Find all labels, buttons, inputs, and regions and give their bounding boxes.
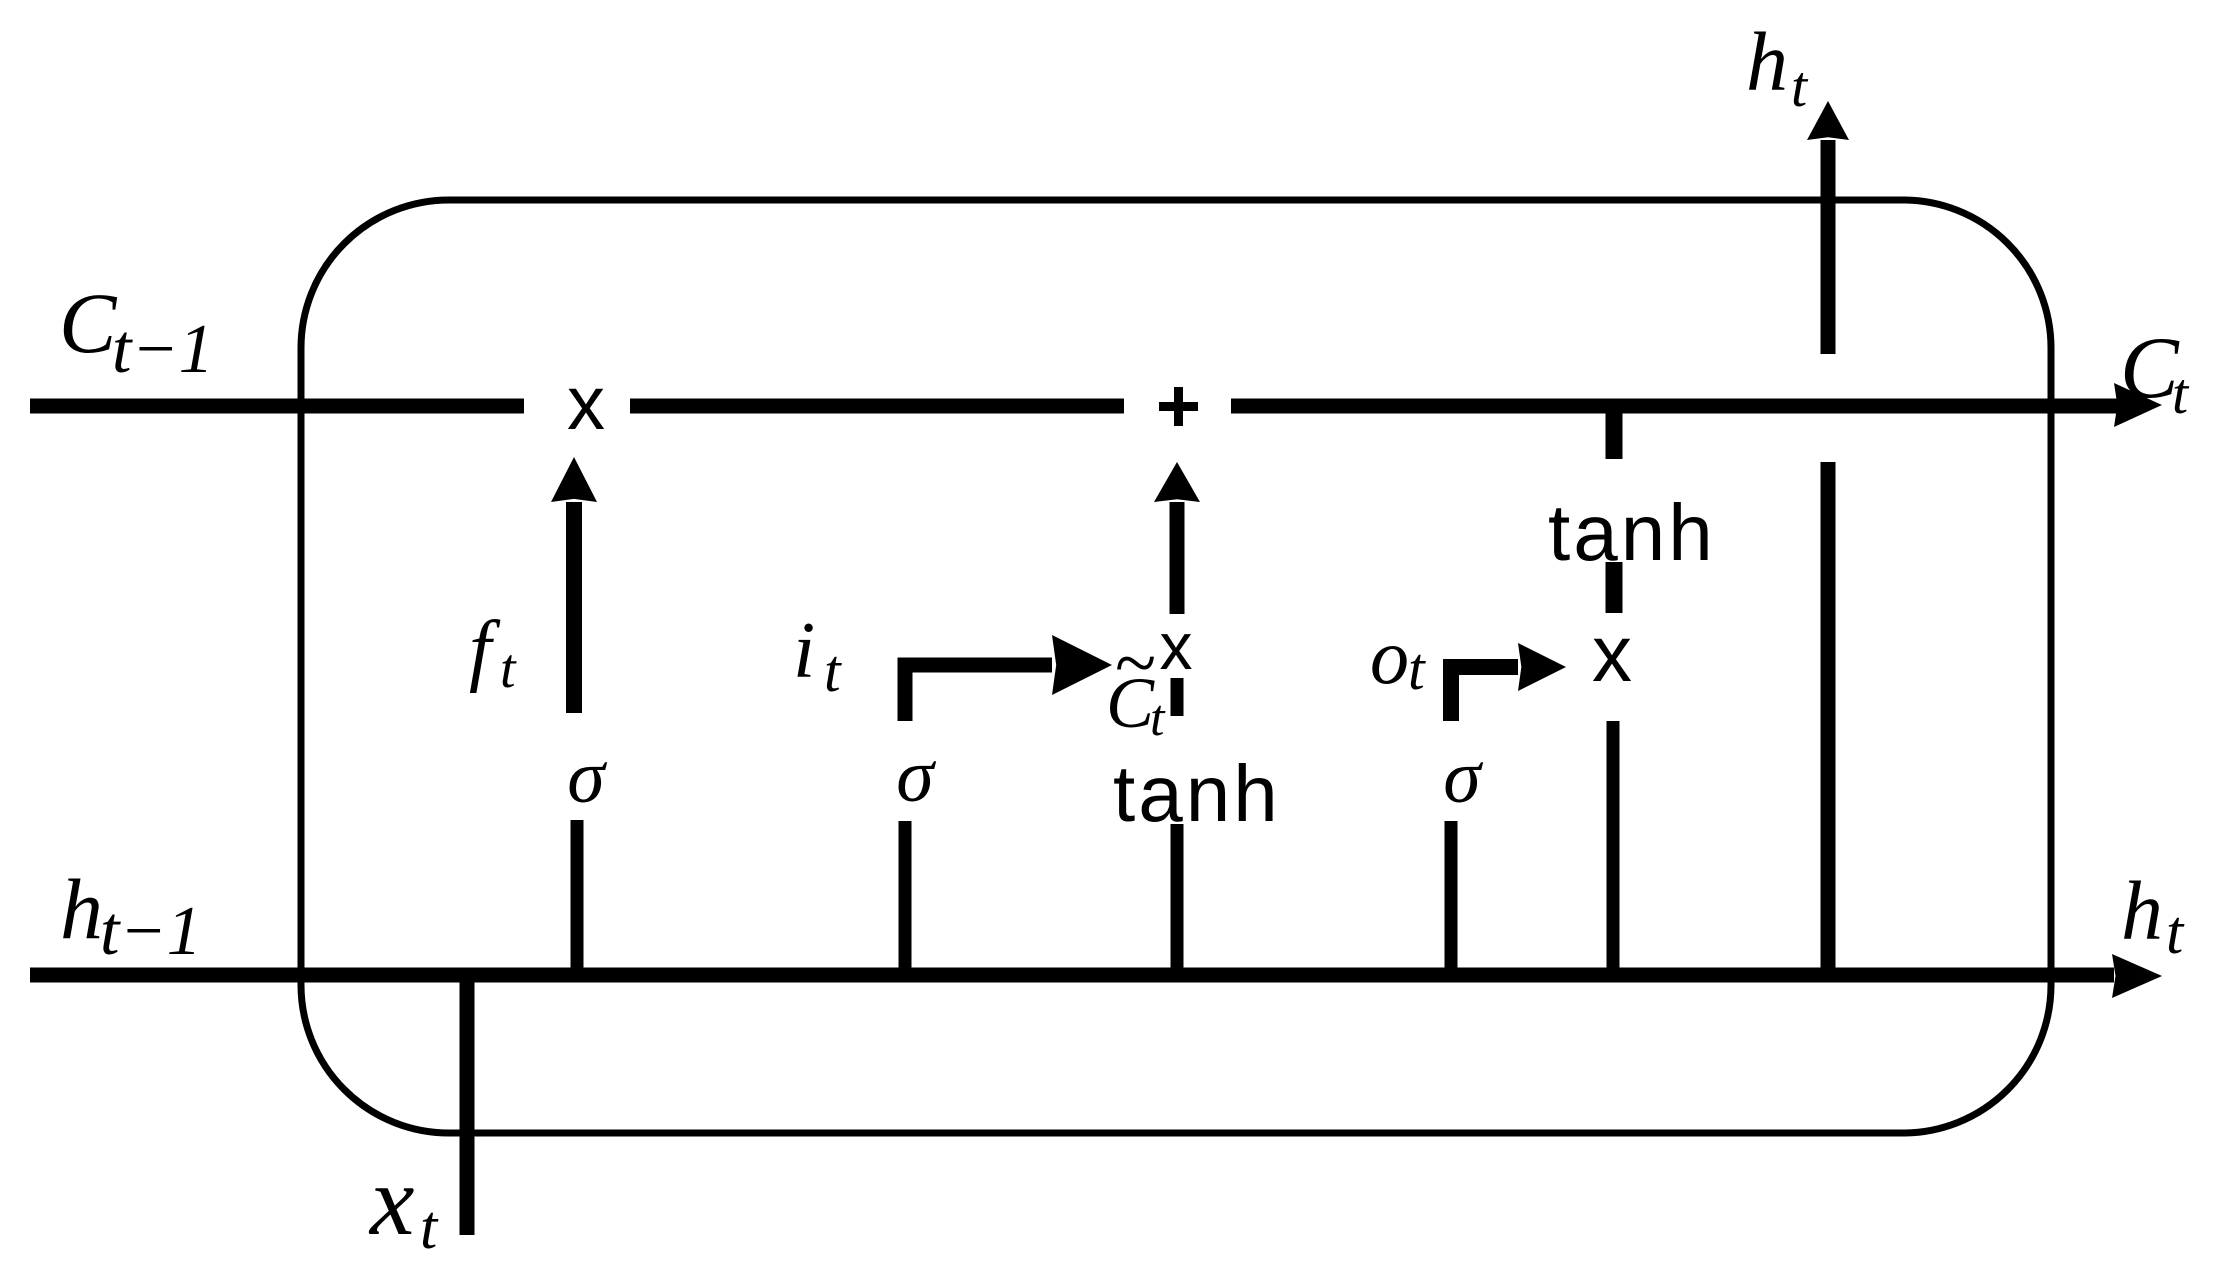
arrowhead: output-gate arrow into output multiply node bbox=[1518, 643, 1566, 691]
svg-text:o: o bbox=[1370, 613, 1409, 700]
svg-text:t−1: t−1 bbox=[112, 311, 214, 388]
wire: output-gate elbow arrow o_t bbox=[1451, 667, 1518, 721]
wire: h_t riser from h line up toward top (below C line) bbox=[1821, 462, 1836, 968]
svg-text:tanh: tanh bbox=[1548, 488, 1716, 577]
svg-text:x: x bbox=[368, 1145, 414, 1256]
svg-text:σ: σ bbox=[896, 734, 936, 818]
wire: tanh (candidate) stem to h line bbox=[1171, 824, 1184, 968]
wire: h_t riser above C line bbox=[1821, 140, 1836, 354]
svg-text:t: t bbox=[1791, 54, 1809, 119]
svg-text:t: t bbox=[824, 638, 842, 704]
wire: x_t input vertical joining h line bbox=[460, 968, 475, 1235]
svg-text:x: x bbox=[567, 361, 605, 446]
svg-text:i: i bbox=[793, 607, 815, 695]
wire: segment between candidate multiply node and tanh label bbox=[1171, 678, 1184, 716]
svg-text:t: t bbox=[2172, 361, 2190, 426]
svg-text:h: h bbox=[1746, 16, 1788, 109]
svg-text:x: x bbox=[1160, 609, 1193, 683]
svg-text:C: C bbox=[59, 275, 118, 371]
svg-text:tanh: tanh bbox=[1113, 749, 1281, 838]
wire: candidate multiply output arrow shaft to add node bbox=[1170, 502, 1185, 614]
LSTM cell body (rounded rectangle) bbox=[301, 200, 2051, 1133]
svg-text:x: x bbox=[1592, 609, 1632, 698]
svg-text:σ: σ bbox=[567, 735, 607, 819]
arrowhead: C_t output arrow bbox=[2114, 383, 2162, 427]
arrowhead: h_t top output arrow bbox=[1807, 101, 1849, 140]
svg-text:C: C bbox=[2120, 320, 2180, 417]
wire: sigma (output gate) stem to h line bbox=[1445, 821, 1458, 968]
arrowhead: h_t output arrow bbox=[2112, 954, 2162, 998]
wire: forget-gate arrow shaft f_t to multiply node bbox=[566, 502, 582, 713]
wire: segment from tanh (output) label to output multiply node bbox=[1606, 562, 1623, 613]
wire: cell-state line C, right segment (add node to C_t output) bbox=[1231, 399, 2118, 414]
arrowhead: forget-gate arrow into multiply node bbox=[551, 457, 597, 502]
svg-text:h: h bbox=[60, 861, 103, 957]
svg-text:t: t bbox=[1150, 690, 1166, 747]
svg-text:σ: σ bbox=[1443, 735, 1483, 819]
wire: hidden-state line h (h_{t-1} input to h_t output) bbox=[30, 968, 2114, 983]
svg-text:t: t bbox=[420, 1194, 439, 1262]
wire: segment from C line down to tanh (output) label bbox=[1606, 410, 1623, 459]
wire: sigma (input gate) stem to h line bbox=[899, 821, 912, 968]
svg-text:t−1: t−1 bbox=[100, 893, 202, 970]
wire: sigma (forget gate) stem to h line bbox=[571, 820, 584, 968]
arrowhead: input-gate arrow into candidate multiply node bbox=[1052, 635, 1112, 695]
svg-text:t: t bbox=[1408, 636, 1426, 702]
svg-text:~: ~ bbox=[1114, 621, 1155, 705]
arrowhead: candidate arrow into add node bbox=[1154, 462, 1200, 502]
wire: cell-state line C, middle segment (multiply node to add node) bbox=[630, 399, 1124, 414]
svg-text:t: t bbox=[500, 638, 517, 700]
wire: output multiply node stem down to h line bbox=[1607, 721, 1620, 968]
node: add (+) on C line bbox=[1159, 402, 1198, 411]
svg-text:h: h bbox=[2121, 865, 2163, 958]
svg-text:t: t bbox=[2166, 899, 2185, 967]
wire: cell-state line C, left segment (C_{t-1} input to multiply node) bbox=[30, 399, 524, 414]
wire: input-gate elbow arrow i_t bbox=[905, 665, 1052, 721]
